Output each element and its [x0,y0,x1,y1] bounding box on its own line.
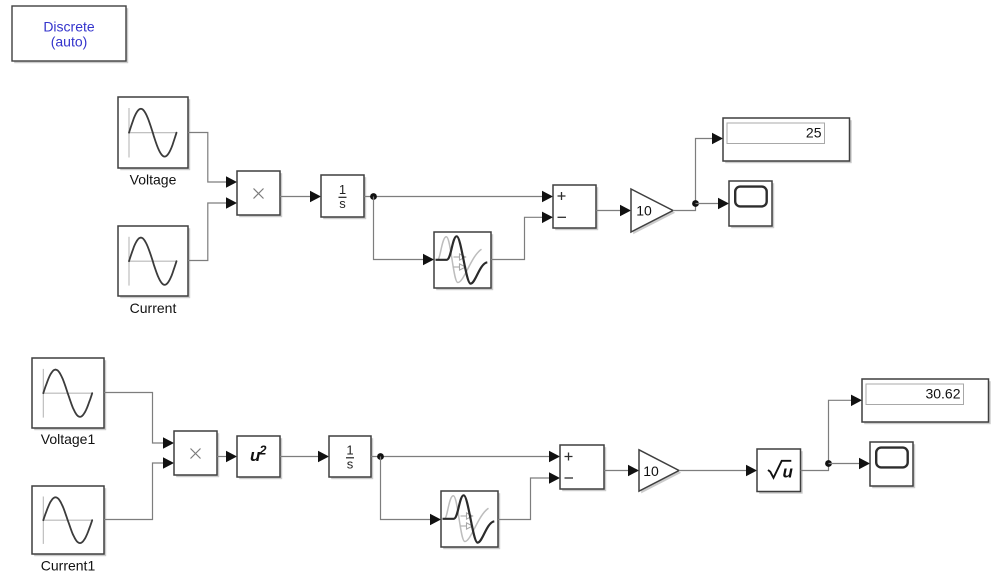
svg-text:10: 10 [636,203,652,219]
junction node after integrator1 [377,453,384,460]
wire Transport Delay -> Sum - input [491,217,543,259]
wire Product -> Integrator [280,196,311,198]
annotation Discrete (auto) sample-time legend [12,6,128,63]
svg-text:1: 1 [346,443,353,458]
svg-text:2: 2 [259,444,267,458]
wire Sum -> Gain [596,210,621,212]
svg-text:(auto): (auto) [51,34,88,50]
display block Display showing 25 [723,118,852,163]
wire Current1 -> Product1 [104,463,164,520]
sum block + - [553,185,598,230]
wire Integrator1 -> junction -> Sum1 + input [371,456,550,458]
integrator block 1/s [321,175,366,219]
wire junction -> Transport Delay [374,197,424,260]
wire Product1 -> Math Function u^2 [217,456,227,458]
integrator1 block 1/s [329,436,373,479]
product1 block (x) [174,431,219,477]
wire junction -> Scope1 [829,463,860,465]
svg-text:Voltage1: Voltage1 [41,431,96,447]
sine wave source block Voltage [118,97,190,170]
svg-text:s: s [347,457,354,472]
wire Voltage -> Product [188,133,227,183]
wire Transport Delay1 -> Sum1 - input [498,478,550,520]
svg-text:30.62: 30.62 [925,385,960,401]
svg-text:s: s [339,196,346,211]
svg-text:25: 25 [806,124,822,140]
svg-text:Current1: Current1 [41,558,96,574]
product block (x) [237,171,282,217]
scope block Scope [729,181,774,228]
svg-text:Current: Current [130,300,177,316]
svg-text:Voltage: Voltage [130,172,177,188]
sine wave source block Voltage1 [32,358,106,430]
transport delay block Transport Delay [434,232,493,290]
sine wave source block Current [118,226,190,298]
wire junction -> Scope [696,203,719,205]
svg-text:Discrete: Discrete [43,19,95,35]
sum1 block + - [560,445,606,491]
wire Sum1 -> Gain1 [604,470,629,472]
wire junction -> Transport Delay1 [381,457,431,520]
wire Sqrt -> junction -> Display1 and Scope1 [801,400,852,470]
math function block u^2 [237,436,282,479]
wire Current -> Product [188,203,227,261]
junction node after sqrt [825,460,832,467]
svg-text:u: u [783,463,794,482]
transport delay block Transport Delay1 [441,491,500,549]
wire Gain -> junction -> Display and Scope [673,139,713,211]
wire u^2 -> Integrator1 [280,456,319,458]
junction node after integrator [370,193,377,200]
gain block 10 [631,189,675,234]
sqrt block √u [757,449,803,494]
svg-text:10: 10 [643,463,659,479]
wire Voltage1 -> Product1 [104,393,164,444]
scope block Scope1 [870,442,915,488]
sine wave source block Current1 [32,486,106,556]
wire Gain1 -> Sqrt [679,470,747,472]
junction node after gain [692,200,699,207]
wire Integrator -> junction -> Sum + input [364,196,543,198]
svg-text:1: 1 [339,182,346,197]
gain1 block 10 [639,450,681,494]
display block Display1 showing 30.62 [862,379,991,424]
